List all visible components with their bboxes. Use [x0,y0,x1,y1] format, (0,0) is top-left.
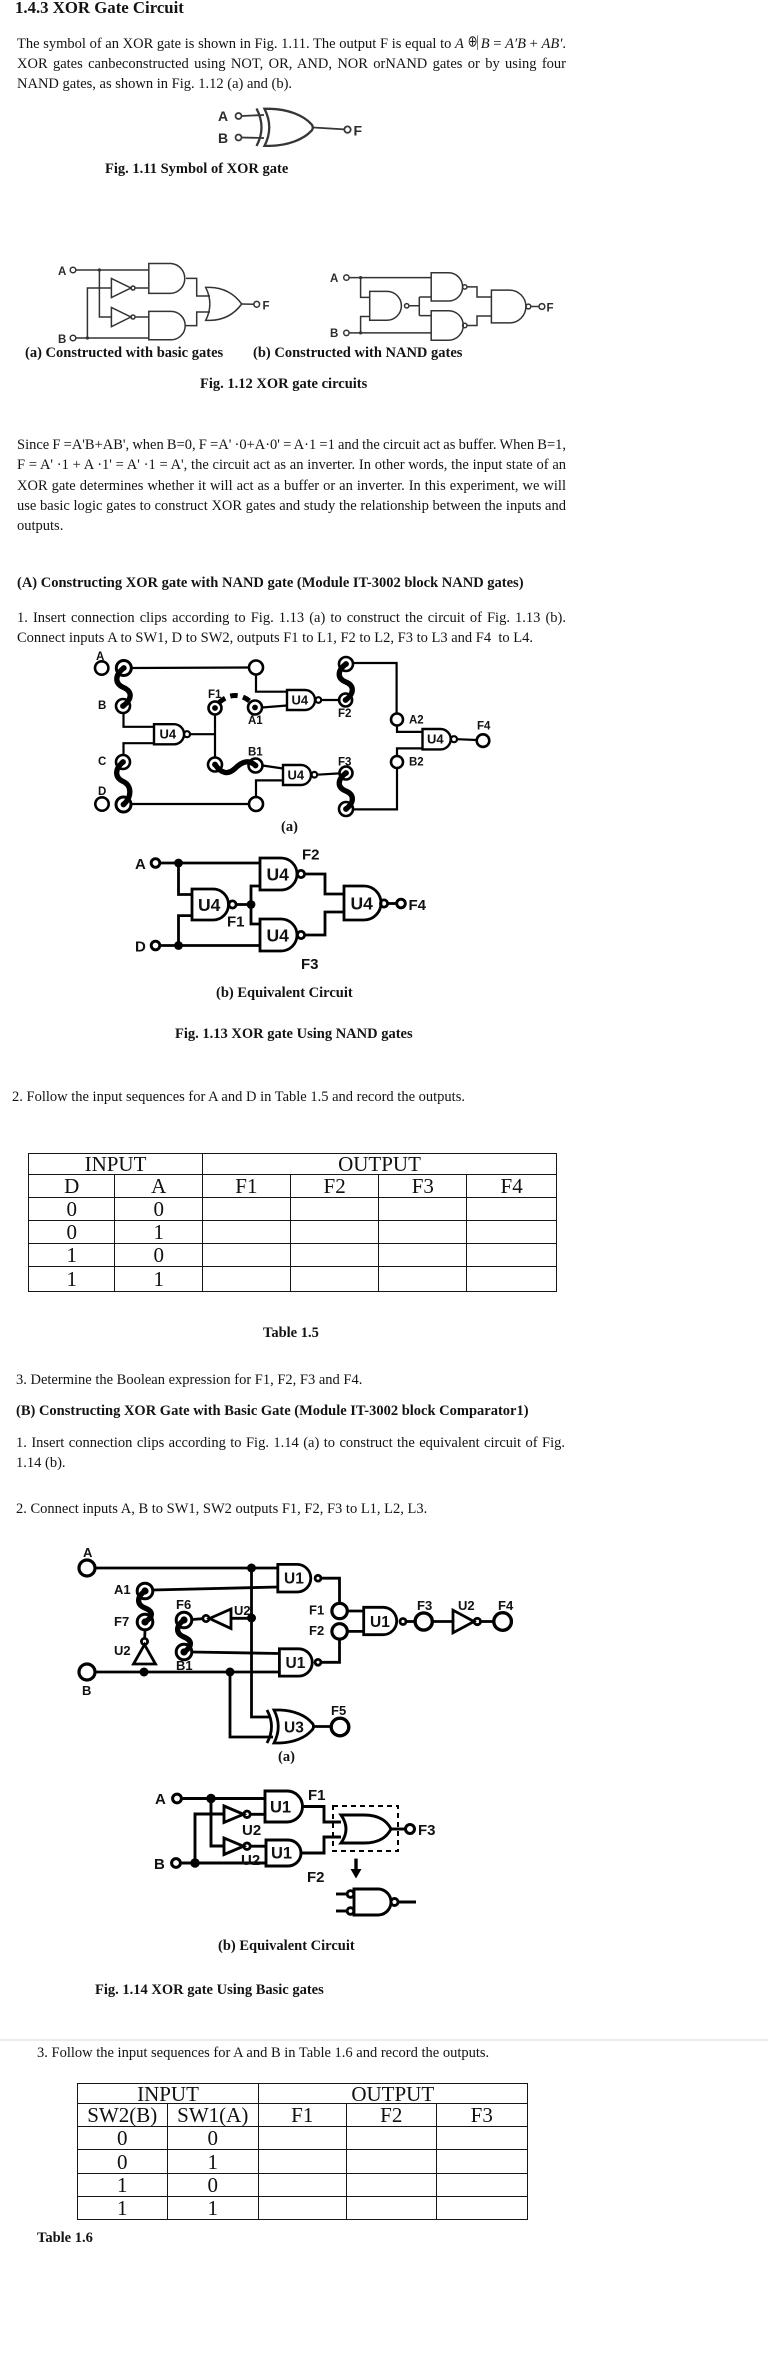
terminal B1 [176,1644,192,1660]
FIG112B: XOR constructed with NAND gates [325,255,565,360]
terminal A1 [137,1583,153,1599]
svg-text:U2: U2 [241,1852,260,1869]
FIG111: XOR gate symbol figure [200,95,380,165]
terminal C [116,755,130,769]
wire U1-2 out to OR [301,1837,341,1853]
svg-text:B2: B2 [409,757,424,769]
output terminal F [539,304,545,310]
svg-text:U4: U4 [288,768,305,783]
OR gate [206,287,242,320]
svg-text:F: F [263,301,270,313]
inverter U2-b (pointing left) [210,1609,232,1629]
wire U2-2 to U1-2 [250,1845,266,1848]
wire A to AND1 [76,269,149,271]
input terminal A [79,1560,95,1576]
clip plug dot botF3 [343,806,349,812]
nor-style gate body [354,1889,391,1915]
svg-text:F3: F3 [418,1822,436,1839]
svg-text:U2: U2 [114,1643,131,1658]
wire NAND2 to NAND4 [467,287,491,297]
svg-text:A: A [218,108,228,124]
NAND3 bubble [463,323,467,327]
node junction on A wire [247,1564,256,1573]
wire D row [131,803,249,805]
FIG112A: XOR constructed with basic gates [50,250,280,350]
U1-1 bubble [315,1575,321,1581]
node B junction [359,331,362,334]
svg-text:U2: U2 [458,1598,475,1613]
svg-text:B: B [330,328,338,340]
terminal B1 [249,759,263,773]
svg-text:B: B [82,1683,91,1698]
input bubble 1 [347,1891,354,1898]
output terminal F [344,126,350,132]
terminal A right (clip) [116,661,131,676]
clip plug dot F6 [180,1616,187,1623]
xor U3 body [274,1710,314,1743]
wire U1-1 to F1 [321,1578,340,1603]
NOT2 bubble [131,315,135,319]
wire B junction down to U3 [230,1672,273,1737]
svg-text:F2: F2 [302,847,320,864]
wire B [242,137,265,140]
wire U2-c to F4 [481,1620,494,1623]
output terminal F4 [397,899,406,908]
paragraph 1 line 2 [17,54,566,74]
or gate F3 [341,1815,391,1843]
terminal B [116,699,130,713]
item A1 [17,608,566,628]
wire A down to left NAND [179,863,193,895]
AND gate 1 (top) [149,264,185,294]
inverter U2-b bubble [203,1615,209,1621]
terminal below F3 [339,802,353,816]
node A junction [359,276,362,279]
U4-2 bubble [316,697,322,703]
input terminal B [172,1859,181,1868]
node junction F1 [247,900,256,909]
clip squiggle C to D [117,762,130,805]
U2-2 bubble [244,1843,250,1849]
wire U4-1 out to F1 column [190,733,215,735]
svg-text:U4: U4 [267,926,290,946]
terminal F3 [415,1613,432,1630]
svg-text:F2: F2 [309,1623,324,1638]
wire A2 to U4-4 [397,726,423,732]
wire to F4 terminal [388,902,397,905]
inverter U2-2 (bottom) [224,1838,244,1855]
terminal F3 [340,767,353,780]
svg-text:U1: U1 [370,1614,390,1631]
svg-text:F4: F4 [409,897,427,914]
NOT gate 1 (inverter, B input) [111,278,130,297]
svg-text:F3: F3 [301,956,319,973]
NAND gate 1 (left) [370,291,402,320]
nand U4-1 [154,724,184,744]
input stub 2 [336,1910,347,1913]
wire NOT1 to AND1 [135,287,149,289]
wire NAND1 out split [409,297,431,316]
wire B up to NAND1 [361,317,370,333]
arrow head [351,1869,362,1879]
item A2 [12,1087,465,1107]
wire U2-b input [231,1617,252,1620]
input stub 1 [336,1893,347,1896]
svg-text:A: A [83,1545,93,1560]
input terminal A [70,267,76,273]
wire U4-2 to F2 [321,699,339,701]
wire A down to NAND1 [361,278,370,298]
U4 left bubble [229,901,236,908]
svg-text:C: C [98,756,106,768]
input terminal B [236,135,242,141]
clip plug dot C [120,759,126,765]
dashed clip F1 to A1 [219,696,252,703]
svg-text:F: F [354,123,363,139]
clip plug dot lowF1 [212,762,218,768]
wire B2 down to bottom row [353,768,397,809]
output wire [314,128,345,130]
node junction D [174,941,183,950]
wire A to top NAND [160,862,260,865]
wire A down to NOT2 [99,270,111,317]
svg-text:A1: A1 [114,1582,131,1597]
wire NAND3 to NAND4 [467,316,491,326]
svg-text:F2: F2 [338,708,351,720]
wire U1-1 out to OR [303,1807,342,1823]
FIG114B: equivalent circuit of XOR with basic gates [150,1785,440,1925]
U2-1 bubble [244,1811,250,1817]
wire U1-2 to F2 [321,1639,340,1662]
svg-text:A1: A1 [248,715,263,727]
svg-text:U2: U2 [242,1822,261,1839]
clip plug dot B [120,703,126,709]
wire F6 to bubble [192,1617,203,1621]
U4 right bubble [380,900,387,907]
and U1-2 [266,1840,301,1866]
svg-text:F3: F3 [417,1598,432,1613]
svg-text:U4: U4 [160,727,177,742]
wire A1 to U1-1 lower input [153,1587,278,1590]
terminal A1 [248,701,262,715]
clip plug dot D [121,802,127,808]
wire top to A2 [353,663,397,714]
terminal F1 [209,702,222,715]
NAND gate 3 (bottom) [431,311,463,341]
paragraph 1 line 3 [17,74,292,94]
wire B to NAND3 [349,332,431,334]
nand U1-1 [278,1564,311,1592]
node junction A [206,1794,215,1803]
NAND4 bubble [526,304,531,309]
wire U4-4 to F4 [457,738,477,741]
section title [15,0,184,18]
vertical wire F1 column [214,715,216,758]
NAND gate 2 (top) [431,273,462,301]
terminal F4 [494,1613,512,1631]
nand U1-3 [364,1607,397,1634]
wire F1 to U1-3 [347,1610,363,1613]
input bubble 2 [347,1908,354,1915]
nand U1-2 [279,1649,312,1676]
clip plug dot F1 [212,705,218,711]
svg-text:U1: U1 [270,1799,291,1817]
wire B1 to U4-3 [263,766,284,769]
inverter U2-a bubble [141,1638,147,1644]
wire F3 to U2-c [432,1620,453,1623]
svg-text:D: D [135,939,146,956]
wire AND2 to OR [185,312,210,326]
svg-text:U4: U4 [427,732,444,747]
node junction B [190,1858,199,1867]
svg-text:F6: F6 [176,1597,191,1612]
svg-text:A2: A2 [409,714,424,726]
terminal F1 [332,1603,347,1618]
clip plug dot F3 [343,770,349,776]
nand U4 left (F1) [192,889,228,920]
wire AND1 to OR [186,278,210,296]
clip squiggle A to B [117,668,130,706]
NAND2 bubble [463,285,467,289]
wire U3 to F5 [313,1725,331,1728]
item A3 / heading B [16,1370,362,1390]
terminal B2 [391,756,403,768]
wire A down to U2-2 [211,1799,224,1847]
U4 bottom bubble [297,931,304,938]
input terminal A [344,275,349,280]
clip squiggle A1 to F7 [139,1591,152,1622]
svg-text:B: B [218,130,228,146]
NAND gate 4 (output) [491,290,526,323]
wire F1 out [236,903,251,906]
node junction U2-b input [247,1614,256,1623]
output wire [531,306,539,308]
svg-text:A: A [135,856,146,873]
xor U3 input side arc [267,1710,272,1743]
input terminal A [173,1794,182,1803]
svg-text:A: A [58,266,66,278]
terminal D right (clip) [116,797,131,812]
clip plug dot F7 [141,1618,148,1625]
wire to U4-2 top input [256,675,287,692]
FIG113B: equivalent circuit of XOR with 4 NAND gates [130,845,460,977]
input terminal A [151,859,160,868]
wire A to U1-1 [95,1567,278,1570]
output terminal F [254,301,260,307]
svg-text:A: A [155,1791,166,1808]
clip plug dot A1 [252,705,258,711]
AND gate 2 (bottom) [149,311,185,339]
table 1.5 [28,1153,557,1292]
wire OR to F3 [390,1828,406,1831]
wire B to AND2 [76,337,149,339]
NAND1 bubble [405,304,409,308]
nand U4 top (F2) [260,858,297,890]
wire to U4-3 lower input [256,780,283,797]
wire B up to NOT1 [87,288,111,338]
wire B1 to U1-2 [192,1652,280,1654]
node junction below U2-a [140,1668,149,1677]
input terminal B [70,335,76,341]
wire C to U4-1 [124,743,155,755]
terminal F2 [339,694,352,707]
node junction A [174,859,183,868]
FIG114A: comparator module wiring diagram [70,1540,520,1760]
svg-text:A: A [330,273,338,285]
and U1-1 [265,1791,302,1822]
clip plug dot A [121,665,127,671]
output terminal F3 [406,1825,415,1834]
clip plug dot B1 [180,1648,187,1655]
xor-gate input side extra arc [257,109,262,147]
wire U4-3 to F3 [317,773,339,774]
clip squiggle F6 to B1 [178,1620,191,1652]
svg-text:F2: F2 [307,1869,325,1886]
clip plug dot F2 [343,697,349,703]
svg-text:F4: F4 [477,721,491,733]
svg-text:U4: U4 [292,693,309,708]
paragraph 1 line 1 [17,34,566,54]
wire NOT2 to AND2 [135,316,149,318]
clip squiggle F3 column [339,773,352,809]
terminal above F2 [339,657,353,671]
NOT1 bubble [131,286,135,290]
nand U4 bottom (F3) [260,919,297,951]
wire D up to left NAND [179,916,193,946]
wire A to U1-1 [181,1797,265,1800]
dashed highlight box [333,1806,398,1851]
wire B to U4-1 [124,713,155,727]
arrow down [354,1859,357,1870]
terminal A left [95,661,108,674]
nand U4-4 [423,729,451,749]
svg-text:U3: U3 [284,1720,304,1737]
U2-c bubble [474,1618,480,1624]
svg-text:U1: U1 [271,1845,292,1863]
clip plug dot B1 [253,763,259,769]
terminal F7 [137,1614,153,1630]
long vertical wire from A junction [252,1568,272,1717]
terminal F4 [477,734,490,747]
wire A to NAND2 [349,277,431,279]
wire U2-1 to U1-1 [250,1813,265,1816]
wire F3 to right NAND [305,912,344,935]
svg-text:B1: B1 [248,747,263,759]
fig 1.12 captions [25,343,223,363]
wire D to bottom NAND [160,944,260,947]
U4-4 bubble [451,736,457,742]
output wire [242,303,254,305]
svg-text:B: B [154,1856,165,1873]
terminal F2 [332,1624,347,1639]
clip squiggle to B1 [215,762,256,773]
separator rule [0,2039,768,2041]
node junction B wire [226,1668,235,1677]
svg-text:B: B [98,700,106,712]
input terminal B [344,330,349,335]
item B3 [37,2043,489,2063]
table 1.6 [77,2083,528,2220]
wire F1 up to top NAND [251,886,260,905]
heading A [17,573,524,593]
input terminal D [151,941,160,950]
U1-3 bubble [400,1619,406,1625]
wire F2 to U1-3 [347,1630,363,1633]
terminal top right [249,661,263,675]
node B junction [86,336,89,339]
wire A row [131,666,249,669]
svg-text:F7: F7 [114,1614,129,1629]
wire B2 to U4-4 lower input [397,748,423,756]
svg-text:U4: U4 [198,895,221,915]
wire B to U1-2 [180,1862,266,1865]
svg-text:F4: F4 [498,1598,514,1613]
clip plug dot topF2 [343,661,349,667]
svg-text:F5: F5 [331,1703,346,1718]
FIG113A: module wiring diagram [75,645,520,840]
svg-text:F1: F1 [227,914,245,931]
svg-text:F1: F1 [308,1787,326,1804]
svg-text:U1: U1 [284,1571,304,1588]
terminal F6 [176,1612,192,1628]
wire U1-3 to F3 [406,1620,415,1623]
xor-gate body [265,109,313,146]
inverter U2-c (pointing right) [453,1610,474,1633]
svg-text:F: F [547,303,554,315]
clip plug dot A1 [141,1587,148,1594]
output stub [398,1901,416,1904]
terminal D left [95,797,108,810]
nand U4-3 [283,765,311,785]
terminal F5 [331,1718,349,1736]
nand U4 right (F4) [344,886,381,920]
U4-1 bubble [184,731,190,737]
terminal bottom right [249,797,263,811]
wire F2 to right NAND [305,874,344,894]
svg-text:U4: U4 [351,894,374,914]
wire A [242,115,265,116]
input terminal A [236,113,242,119]
U4-3 bubble [312,772,318,778]
Fig 1.11 caption [105,159,288,179]
inverter U2-a (pointing up) [134,1645,156,1664]
U4 top bubble [297,870,304,877]
wire F1 down to bottom NAND [251,905,260,925]
wire F7 to bubble [143,1630,146,1639]
output bubble [391,1899,398,1906]
terminal A2 [391,714,403,726]
svg-text:U4: U4 [267,865,290,885]
paragraph 2 [17,435,566,455]
svg-text:F1: F1 [309,1603,324,1618]
wire A1 to U4-2 [262,706,287,708]
U1-2 bubble [315,1659,321,1665]
wire B to U1-2 [95,1671,279,1674]
nand U4-2 [287,690,315,710]
inverter U2-1 (top) [224,1806,244,1823]
wire B up to U2-1 [195,1814,224,1863]
input terminal B [79,1664,95,1680]
terminal below F1 [208,758,222,772]
svg-text:U1: U1 [286,1655,306,1672]
node A junction [98,268,101,271]
clip squiggle F2 column [339,664,352,700]
NOT gate 2 (inverter, A input) [111,308,130,327]
